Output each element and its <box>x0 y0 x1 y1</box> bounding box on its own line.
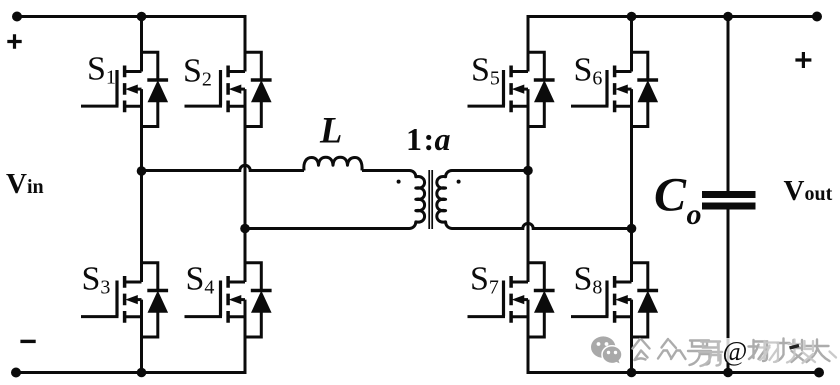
transformer core <box>429 170 432 229</box>
svg-text:S6: S6 <box>574 52 603 90</box>
terminal dot Vout- <box>814 368 824 378</box>
terminal dot Vin- <box>11 368 21 378</box>
watermark text gong (hand-drawn) <box>633 339 650 360</box>
svg-text:S8: S8 <box>574 261 603 299</box>
svg-text:Vout: Vout <box>784 175 833 207</box>
watermark text di (hand-drawn) <box>749 340 768 361</box>
transformer secondary winding <box>437 171 458 229</box>
wire node B to transformer primary bottom <box>245 227 406 230</box>
svg-text:o: o <box>687 198 702 231</box>
wire top-right rail (Vout+ bus) <box>528 15 817 18</box>
plus sign Vout <box>795 52 811 68</box>
transformer primary polarity dot <box>397 180 401 184</box>
junction bottom rail capacitor <box>723 368 733 378</box>
transistor S2 <box>185 52 272 126</box>
wire bottom-left rail (Vin- bus) <box>16 371 246 374</box>
watermark text da (hand-drawn) <box>806 340 830 363</box>
plus sign Vin <box>7 34 21 48</box>
wire S6 drain <box>630 17 633 72</box>
wire S6 source to node D <box>630 89 633 228</box>
junction top rail S6 <box>627 12 637 22</box>
wire S4 source <box>244 300 247 374</box>
watermark ghost echo layer <box>760 340 837 364</box>
wire bottom-right rail (Vout- bus) <box>528 371 819 374</box>
svg-text:S2: S2 <box>183 53 212 91</box>
svg-text:S1: S1 <box>87 51 116 89</box>
transistor S3 <box>81 263 168 337</box>
wire S5 source to node C <box>527 89 530 170</box>
wire S8 source <box>630 300 633 373</box>
junction node B <box>240 224 250 234</box>
watermark text qiu (hand-drawn) <box>776 339 804 363</box>
svg-text:L: L <box>319 110 342 151</box>
svg-text:1:a: 1:a <box>406 121 451 157</box>
wire transformer secondary top to node C <box>456 169 528 172</box>
junction top rail S1 <box>137 12 147 22</box>
junction bottom rail S8 <box>627 368 637 378</box>
svg-text:@: @ <box>723 336 748 366</box>
watermark text zhong (hand-drawn) <box>658 339 686 359</box>
transistor S5 <box>468 52 555 126</box>
wire node A to inductor with hop over S2 leg <box>142 165 305 170</box>
junction node C <box>523 166 533 176</box>
watermark backing <box>716 338 760 363</box>
watermark dark stroke artifact <box>790 346 800 349</box>
wire S7 source <box>527 300 530 374</box>
transformer secondary polarity dot <box>457 180 461 184</box>
svg-text:S4: S4 <box>186 261 215 299</box>
svg-text:S7: S7 <box>470 261 499 299</box>
wire S2 source to node B <box>244 89 247 228</box>
wire S2 drain <box>244 15 247 72</box>
wire S4 drain from node B <box>244 229 247 283</box>
svg-text:C: C <box>654 169 687 222</box>
minus sign Vin <box>20 340 35 343</box>
wire transformer secondary bottom to node D with hop over S5 leg <box>456 223 632 228</box>
junction bottom rail S3 <box>137 368 147 378</box>
watermark wechat icon <box>591 336 622 364</box>
wire inductor to transformer primary <box>362 169 406 172</box>
wire S5 drain <box>527 15 530 72</box>
wire capacitor Co top <box>727 17 730 192</box>
terminal dot Vin+ <box>12 12 22 22</box>
inductor L <box>304 157 362 170</box>
transformer primary winding <box>404 171 425 229</box>
wire S1 drain <box>140 17 143 72</box>
junction node A <box>137 166 147 176</box>
junction node D <box>627 224 637 234</box>
transistor S4 <box>185 263 272 337</box>
junction top rail capacitor <box>723 12 733 22</box>
wire S8 drain from node D <box>630 229 633 283</box>
capacitor Co plates <box>702 191 756 210</box>
terminal dot Vout+ <box>812 12 822 22</box>
watermark separator and @ <box>717 341 720 362</box>
transistor S8 <box>571 263 658 337</box>
transistor S7 <box>468 263 555 337</box>
wire S3 drain from node A <box>140 171 143 282</box>
svg-text:Vin: Vin <box>6 168 44 200</box>
wire S7 drain from node C <box>527 171 530 283</box>
transistor S1 <box>81 52 168 126</box>
svg-text:S5: S5 <box>471 52 500 90</box>
watermark text hao (hand-drawn) <box>688 341 711 366</box>
wire S1 source to node A <box>140 89 143 171</box>
wire S3 source <box>140 300 143 373</box>
transistor S6 <box>571 52 658 126</box>
svg-text:S3: S3 <box>82 261 111 299</box>
wire capacitor Co bottom <box>727 210 730 373</box>
wire top-left rail (Vin+ bus) <box>17 15 245 18</box>
